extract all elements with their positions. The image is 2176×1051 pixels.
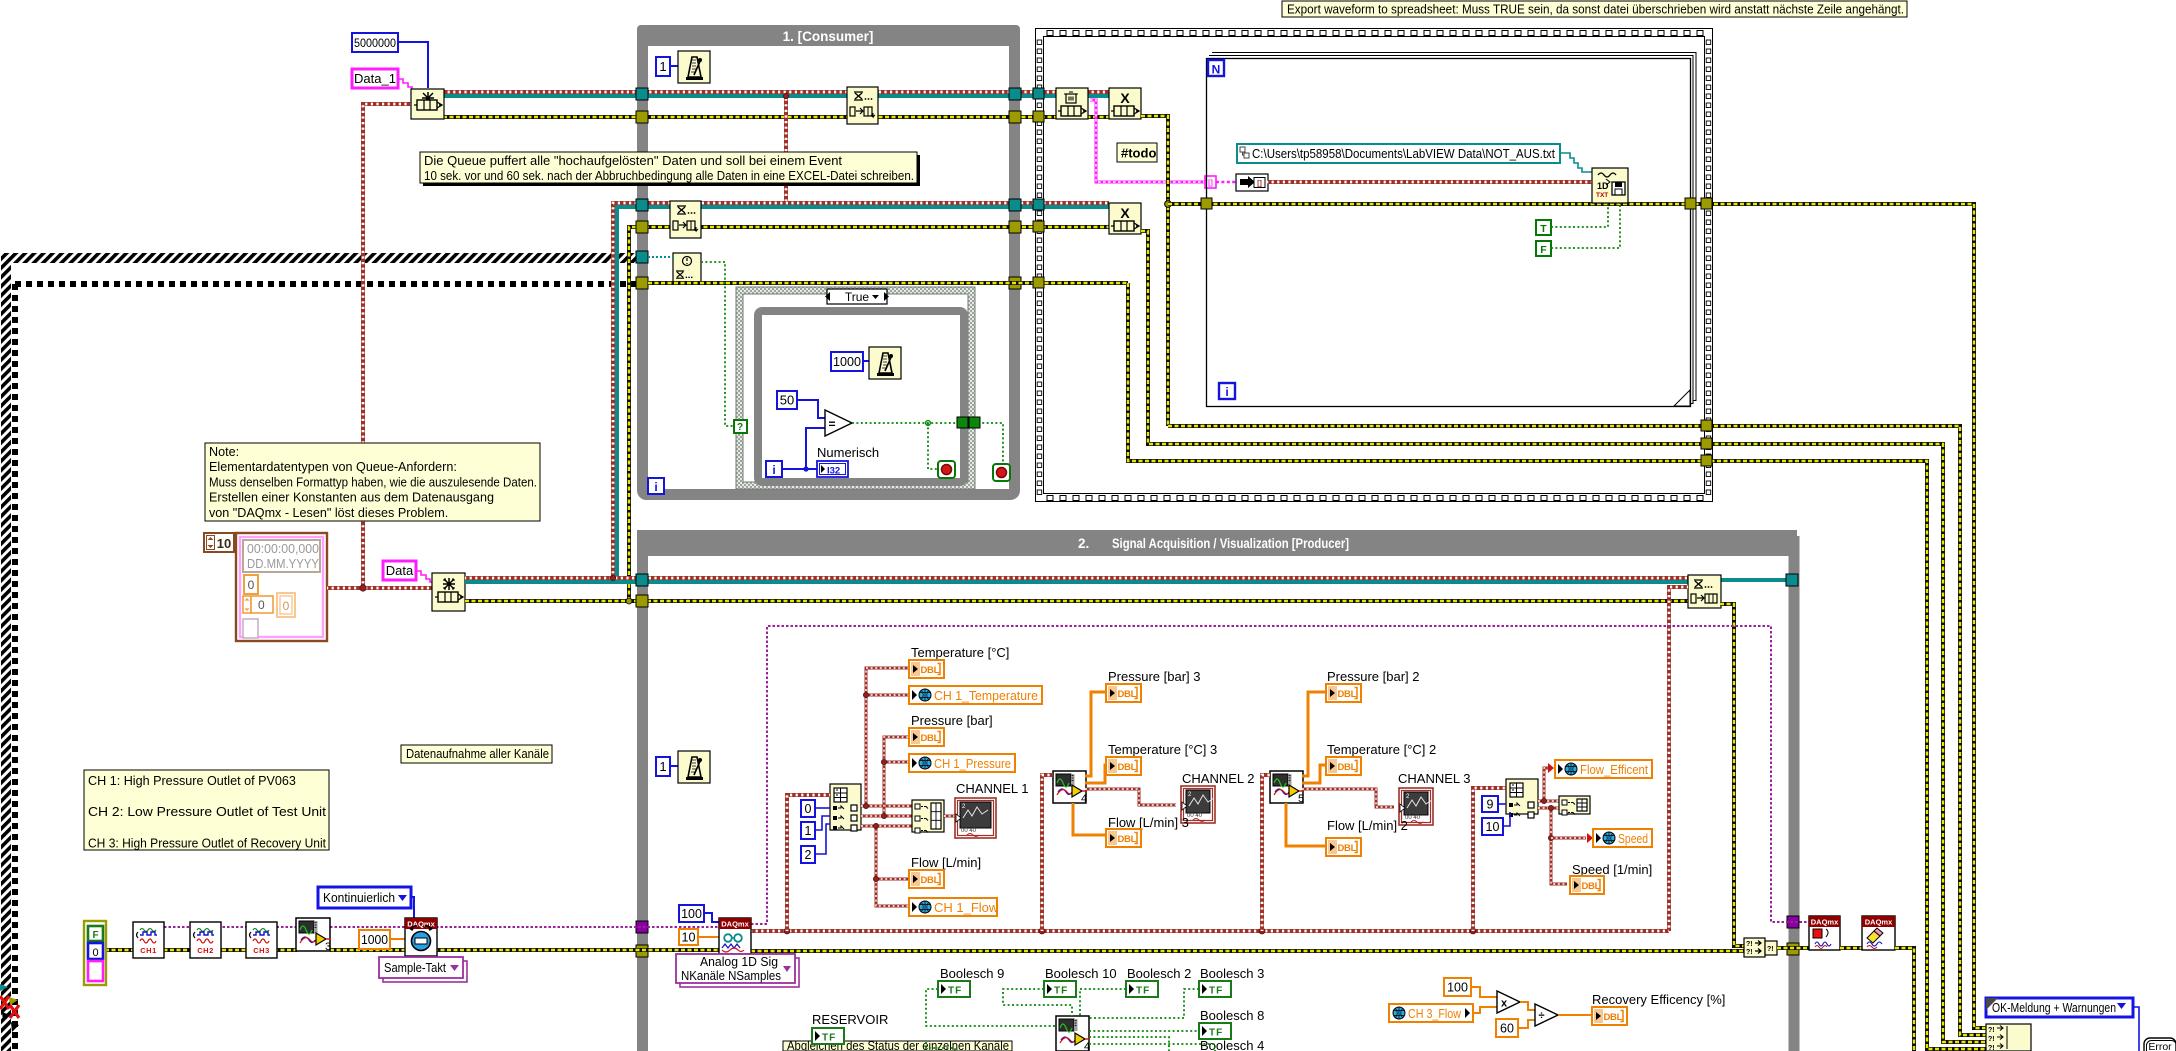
tunnel green case border — [969, 417, 980, 428]
shared variable Flow_Efficent — [1555, 760, 1652, 778]
tunnel olive producer right error — [1787, 943, 1799, 955]
tunnel teal consumer left pair1 — [636, 88, 648, 100]
iteration terminal i inner loop — [766, 461, 782, 477]
svg-text:x: x — [1501, 998, 1508, 1010]
wire orange divide to DBL — [1558, 1014, 1592, 1016]
indicator Boolesch 2 — [1126, 981, 1158, 997]
numeric constant 10 orange producer — [679, 929, 698, 945]
svg-text:?!: ?! — [1767, 946, 1774, 953]
shared variable CH 1_Temperature — [909, 686, 1042, 704]
svg-text:Signal Acquisition / Visualiza: Signal Acquisition / Visualization [Prod… — [1112, 536, 1349, 551]
numeric constant 1000 orange — [359, 930, 390, 949]
svg-text:Speed: Speed — [1618, 831, 1648, 846]
wire purple daqmx task route — [751, 626, 1809, 924]
wire yellow 2 vertical rise and into consumer — [629, 227, 1141, 601]
wire green selector from error node to case — [701, 262, 735, 426]
wait ms metronome node consumer — [678, 51, 710, 83]
shared variable CH 3_Flow read — [1389, 1004, 1473, 1022]
ring constant Analog 1D Sig — [680, 958, 799, 987]
indicator Error bottom right — [2144, 1038, 2176, 1051]
tunnel olive sequence left yellow2 — [1033, 221, 1044, 232]
svg-text:?: ? — [737, 422, 743, 433]
svg-text:CH 1_Flow: CH 1_Flow — [934, 900, 999, 915]
flush queue node X 2 — [1109, 203, 1141, 234]
inner while loop frame — [758, 311, 964, 482]
svg-text:CH1: CH1 — [140, 946, 157, 955]
merge errors small node — [1765, 941, 1777, 955]
svg-text:Data_1: Data_1 — [354, 71, 396, 86]
svg-text:N: N — [1212, 63, 1221, 77]
svg-text:?!: ?! — [1988, 1045, 1995, 1051]
tunnel teal sequence left pair1 — [1033, 88, 1044, 99]
wire yellow merge to stop — [1777, 946, 1809, 950]
numeric constant 50 — [777, 391, 797, 409]
tunnel olive consumer right yellow1 — [1009, 111, 1021, 123]
svg-text:DBL: DBL — [1118, 762, 1137, 773]
svg-text:2.: 2. — [1078, 536, 1089, 551]
indicator DBL Recovery — [1592, 1007, 1627, 1025]
indicator DBL Flow — [909, 870, 944, 888]
svg-text:CHANNEL 1: CHANNEL 1 — [956, 781, 1028, 796]
svg-text:0: 0 — [258, 598, 265, 612]
comment CH 1 CH 2 CH 3 — [84, 770, 329, 850]
split signals node 5 — [1270, 771, 1303, 803]
ring constant Kontinuierlich — [318, 887, 411, 908]
indicator DBL Pressure 2 — [1326, 684, 1361, 702]
wire blue Kontinuierlich to timing — [411, 897, 414, 920]
wire orange temperature2 — [1302, 765, 1326, 783]
wait ms metronome node inner — [869, 347, 901, 379]
indicator DBL Temperature 3 — [1106, 757, 1141, 775]
indicator Boolesch 9 — [938, 981, 970, 997]
daqmx channel constant CH2 — [190, 922, 221, 958]
constant 100 orange — [1444, 978, 1471, 996]
merge channels node 3 — [296, 918, 330, 951]
wire string Data squiggle — [416, 571, 432, 582]
indicator Boolesch 8 — [1199, 1023, 1231, 1039]
wire green equals to stop buttons — [852, 422, 957, 424]
wire yellow from flush2 down — [1141, 231, 1986, 1042]
svg-text:DAQmx: DAQmx — [1865, 918, 1893, 927]
wire speed branch — [1551, 808, 1567, 884]
svg-text:1000: 1000 — [361, 932, 388, 947]
svg-text:?!: ?! — [1746, 941, 1753, 948]
svg-text:Flow [L/min] 3: Flow [L/min] 3 — [1108, 815, 1189, 830]
wire orange CH3_Flow to multiply — [1473, 1007, 1497, 1013]
constant 9 — [1482, 796, 1498, 812]
indicator boolean RESERVOIR — [812, 1028, 844, 1044]
svg-text:0: 0 — [92, 947, 98, 959]
daqmx channel constant CH3 — [246, 922, 277, 958]
indicator DBL Flow 2 — [1326, 838, 1361, 856]
svg-text:10: 10 — [1486, 820, 1500, 834]
svg-text:?!: ?! — [1746, 949, 1753, 956]
indicator DBL Pressure — [909, 728, 944, 746]
svg-text:CH 2: Low Pressure Outlet of T: CH 2: Low Pressure Outlet of Test Unit — [88, 805, 327, 819]
wire waveform pressure branch — [884, 737, 909, 816]
svg-text:Temperature [°C] 2: Temperature [°C] 2 — [1327, 742, 1436, 757]
iteration terminal i for loop — [1219, 383, 1235, 399]
svg-text:Flow_Efficent: Flow_Efficent — [1580, 762, 1648, 777]
tunnel green inner loop border — [957, 417, 968, 428]
wire yellow producer from queue2 — [465, 599, 1688, 603]
svg-text:60: 60 — [1500, 1022, 1514, 1036]
tunnel teal consumer left broken1 — [636, 251, 648, 263]
wire maroon cluster to write node — [1267, 180, 1592, 184]
while loop 2 Producer frame — [637, 536, 1797, 1051]
svg-text:DAQmx: DAQmx — [721, 920, 749, 929]
tunnel teal producer left pair — [636, 574, 648, 586]
broken wire hatched horizontal to consumer loop — [1, 253, 642, 263]
svg-text:CH 3_Flow: CH 3_Flow — [1408, 1006, 1462, 1021]
indicator DBL Temperature — [909, 660, 944, 678]
svg-text:2: 2 — [805, 848, 812, 862]
numeric constant 10 spin — [204, 533, 234, 552]
write waveform to file node — [1592, 168, 1628, 203]
wire teal path to write node — [1560, 153, 1592, 172]
boolean constant T — [1536, 220, 1551, 235]
svg-text:DBL: DBL — [921, 875, 940, 886]
tunnel olive sequence left yellow1 — [1033, 111, 1044, 122]
svg-text:DD.MM.YYYY: DD.MM.YYYY — [247, 557, 320, 571]
comment Abgleichen des Status — [783, 1041, 1012, 1051]
terminal array bracket magenta — [1205, 176, 1216, 188]
svg-text:Muss denselben Formattyp haben: Muss denselben Formattyp haben, wie die … — [209, 475, 537, 489]
wire maroon pair 2 vertical rise and into consumer — [613, 203, 1109, 578]
svg-text:Boolesch 10: Boolesch 10 — [1045, 966, 1117, 981]
wire teal dotted into error node — [648, 256, 673, 258]
wire maroon node4 to chart2 — [1085, 789, 1176, 805]
ring constant Sample-Takt — [383, 961, 467, 982]
svg-text:von "DAQmx - Lesen" löst diese: von "DAQmx - Lesen" löst dieses Problem. — [209, 506, 448, 520]
ring constant OK-Meldung Warnungen — [1986, 998, 2133, 1017]
wire orange multiply to divide — [1520, 1002, 1535, 1010]
svg-text:Sample-Takt: Sample-Takt — [384, 960, 446, 975]
tunnel teal sequence left pair2 — [1033, 199, 1044, 210]
svg-text:100: 100 — [1447, 981, 1468, 995]
svg-text:DBL: DBL — [1604, 1012, 1623, 1023]
comment Note Elementardatentypen — [205, 443, 540, 521]
svg-text:Pressure [bar]: Pressure [bar] — [911, 713, 993, 728]
tunnel olive consumer right yellow2 — [1009, 221, 1021, 233]
svg-text:10: 10 — [217, 536, 231, 551]
wire blue 9 10 index2 — [1498, 803, 1506, 805]
tunnel olive producer left yellow — [636, 595, 648, 607]
flush queue node X 1 — [1109, 88, 1141, 119]
wire blue 100 to read — [704, 913, 719, 922]
case selector terminal ? — [734, 420, 747, 433]
tunnel teal consumer right pair1 — [1009, 88, 1021, 100]
svg-text:Pressure [bar] 2: Pressure [bar] 2 — [1327, 669, 1420, 684]
path constant NOT_AUS — [1237, 144, 1560, 163]
svg-text:TF: TF — [822, 1033, 836, 1044]
svg-text:1000: 1000 — [833, 354, 861, 369]
svg-text:?!: ?! — [1988, 1036, 1995, 1043]
wire teal pair 2 vertical rise and into consumer — [617, 207, 1109, 582]
while loop 1 Consumer frame — [643, 31, 1015, 495]
index array node 2 — [1506, 779, 1538, 814]
svg-text:TF: TF — [1054, 986, 1068, 997]
svg-text:3: 3 — [325, 941, 331, 953]
case selector label True — [827, 289, 887, 304]
broken wire dashed horizontal — [15, 281, 648, 287]
indicator Boolesch 3 — [1199, 981, 1231, 997]
constant 1 — [801, 822, 815, 839]
comment Datenaufnahme aller Kanaele — [401, 745, 552, 763]
shared variable Speed — [1593, 829, 1652, 847]
case structure True border — [740, 291, 972, 486]
broken wire hatched vertical left edge — [1, 258, 11, 1051]
svg-text:i: i — [772, 463, 775, 477]
svg-text:Flow [L/min]: Flow [L/min] — [911, 855, 981, 870]
svg-text:00 40: 00 40 — [1187, 813, 1203, 819]
svg-text:X: X — [1120, 205, 1130, 221]
svg-text:CH3: CH3 — [253, 946, 270, 955]
svg-text:Boolesch 9: Boolesch 9 — [940, 966, 1004, 981]
shared variable CH 1_Flow — [909, 898, 997, 916]
numeric constant 1 wait consumer — [656, 57, 670, 76]
wait metronome producer with constant 1 — [656, 757, 670, 776]
numeric constant 1000 inner wait — [831, 352, 863, 371]
wire data maroon from obtain queue 1 across consumer loop — [443, 90, 1109, 94]
wire maroon branch down to dequeue 2 — [784, 94, 788, 203]
wire magenta queue name — [1090, 100, 1206, 182]
comment Export waveform — [1282, 1, 1907, 17]
svg-text:5: 5 — [1298, 793, 1304, 805]
multiply node — [1497, 991, 1520, 1013]
svg-text:DBL: DBL — [1338, 762, 1357, 773]
wire maroon to index2 — [1473, 788, 1506, 931]
broken wire dashed vertical — [12, 284, 18, 1051]
numeric constant 100 blue producer — [679, 905, 704, 922]
obtain queue node 1 — [411, 89, 444, 119]
wire purple left chain — [164, 926, 297, 928]
wire blue i to I32 and equals — [782, 468, 817, 470]
for loop N frame — [1207, 59, 1691, 407]
wire maroon timestamp to obtain queue 2 — [327, 586, 432, 590]
wire green boolesch routing — [926, 989, 1056, 1026]
svg-text:[]: [] — [1257, 181, 1262, 188]
svg-text:Temperature [°C]: Temperature [°C] — [911, 645, 1009, 660]
svg-text:Boolesch 2: Boolesch 2 — [1127, 966, 1191, 981]
svg-text:Numerisch: Numerisch — [817, 445, 879, 460]
tunnel olive producer left error — [636, 945, 648, 957]
svg-text:10: 10 — [682, 931, 696, 945]
svg-text:TF: TF — [948, 986, 962, 997]
svg-text:DBL: DBL — [1338, 843, 1357, 854]
wire yellow broken2 across consumer — [648, 281, 1128, 285]
unbundle node 2 — [1559, 796, 1590, 814]
daqmx clear task node — [1862, 916, 1895, 950]
svg-text:5000000: 5000000 — [354, 36, 396, 50]
constant 10 blue — [1482, 818, 1503, 835]
wire orange pressure2 — [1302, 692, 1326, 776]
tunnel olive sequence right yellow 204 — [1701, 198, 1712, 209]
constant 2 — [801, 846, 815, 863]
merge errors node producer — [1744, 938, 1765, 957]
tunnel teal producer right pair — [1786, 574, 1798, 586]
flat sequence structure frame — [1036, 29, 1713, 502]
wire maroon to node 4 — [1042, 775, 1053, 931]
comment todo — [1117, 143, 1157, 162]
daqmx read node — [719, 918, 751, 954]
constant 60 orange — [1496, 1019, 1518, 1037]
unbundle node 1 — [912, 800, 944, 832]
wire yellow producer error main — [751, 949, 1744, 953]
svg-text:DBL: DBL — [1118, 834, 1137, 845]
svg-text:RESERVOIR: RESERVOIR — [812, 1012, 888, 1027]
svg-text:CHANNEL 3: CHANNEL 3 — [1398, 771, 1470, 786]
svg-text:X: X — [1120, 90, 1130, 106]
index array node 1 — [830, 784, 861, 830]
svg-text:1: 1 — [659, 59, 666, 74]
wire maroon producer data main — [751, 929, 1669, 933]
svg-text:Export waveform to spreadsheet: Export waveform to spreadsheet: Muss TRU… — [1287, 2, 1904, 17]
svg-text:Data: Data — [386, 563, 414, 578]
tunnel olive consumer left yellow1 — [636, 111, 648, 123]
svg-text:CH 1_Pressure: CH 1_Pressure — [934, 756, 1011, 771]
svg-text:Flow [L/min] 2: Flow [L/min] 2 — [1327, 818, 1408, 833]
svg-text:True: True — [845, 290, 870, 304]
svg-text:TF: TF — [1209, 986, 1223, 997]
wire blue 0 1 2 to index array — [815, 807, 830, 809]
svg-text:TF: TF — [1209, 1028, 1223, 1039]
wire string Data_1 squiggle — [398, 79, 414, 91]
iteration terminal i consumer — [648, 478, 664, 494]
svg-text:Pressure [bar] 3: Pressure [bar] 3 — [1108, 669, 1201, 684]
shared variable CH 1_Pressure — [909, 754, 1015, 772]
tunnel olive consumer right yellow3 — [1009, 277, 1021, 289]
svg-text:DBL: DBL — [1338, 689, 1357, 700]
wire orange 60 to divide — [1518, 1020, 1535, 1028]
string to array node — [1236, 174, 1268, 191]
wire yellow enqueue error down — [1720, 604, 1744, 946]
svg-text:?!: ?! — [1988, 1027, 1995, 1034]
string constant Data — [383, 561, 416, 580]
svg-text:Datenaufnahme aller Kanäle: Datenaufnahme aller Kanäle — [406, 747, 549, 761]
svg-text:4: 4 — [1081, 793, 1087, 805]
wire orange temperature3 — [1085, 765, 1110, 783]
wire blue 50 to equals — [797, 400, 825, 418]
tunnel purple producer left — [636, 921, 648, 933]
chart terminal CHANNEL 2 — [1181, 786, 1215, 823]
wire rows index2 to unbundle2 — [1538, 800, 1559, 803]
svg-text:OK-Meldung + Warnungen: OK-Meldung + Warnungen — [1992, 1001, 2116, 1015]
wire error cluster maroon vertical from timestamp to obtain queue 1 — [363, 104, 411, 588]
svg-text:i: i — [1225, 385, 1228, 399]
svg-text:TF: TF — [1136, 986, 1150, 997]
tunnel olive sequence right yellow 461 — [1701, 455, 1712, 466]
split signals node 4 booleans — [1056, 1016, 1089, 1051]
dequeue flush node consumer 2 — [670, 201, 701, 238]
svg-text:Analog 1D Sig: Analog 1D Sig — [700, 955, 778, 969]
svg-text:Speed [1/min]: Speed [1/min] — [1572, 862, 1652, 877]
wire yellow stop to clear — [1840, 946, 1862, 950]
svg-text:CH2: CH2 — [197, 946, 214, 955]
svg-text:Boolesch 3: Boolesch 3 — [1200, 966, 1264, 981]
svg-text:1. [Consumer]: 1. [Consumer] — [783, 29, 874, 44]
equal comparison node — [825, 410, 852, 436]
loop count terminal N — [1208, 60, 1224, 76]
constant 0 — [801, 800, 815, 817]
dequeue element node consumer — [847, 87, 878, 124]
indicator Boolesch 10 — [1044, 981, 1076, 997]
svg-text:Note:: Note: — [209, 445, 239, 459]
svg-text:[]: [] — [1208, 180, 1213, 187]
svg-text:Kontinuierlich: Kontinuierlich — [323, 890, 395, 905]
tunnel teal consumer left pair2 — [636, 199, 648, 211]
wire maroon read to index array — [787, 795, 830, 931]
string constant Data_1 — [352, 69, 398, 88]
svg-text:F: F — [1540, 244, 1547, 256]
wire green F to write node — [1551, 204, 1620, 248]
indicator DBL Temperature 2 — [1326, 757, 1361, 775]
wire yellow clear down right — [1895, 948, 1914, 1051]
svg-text:CHANNEL 2: CHANNEL 2 — [1182, 771, 1254, 786]
svg-text:Erstellen einer Konstanten aus: Erstellen einer Konstanten aus dem Daten… — [209, 491, 494, 505]
svg-text:DAQmx: DAQmx — [1811, 918, 1839, 927]
svg-text:DBL: DBL — [1118, 689, 1137, 700]
svg-text:NKanäle NSamples: NKanäle NSamples — [681, 969, 781, 983]
svg-text:1D: 1D — [1597, 181, 1609, 191]
wire green T to write node — [1551, 204, 1608, 227]
wire error yellow from obtain queue 1 across consumer loop — [443, 115, 1109, 119]
tunnel teal consumer right pair2 — [1009, 199, 1021, 211]
svg-text:10 sek. vor und 60 sek. nach d: 10 sek. vor und 60 sek. nach der Abbruch… — [424, 168, 914, 183]
stop button inner loop — [938, 461, 955, 478]
tunnel olive consumer left yellow2 — [636, 221, 648, 233]
svg-text:00:00:00,000: 00:00:00,000 — [247, 542, 319, 556]
chart terminal CHANNEL 3 — [1399, 788, 1433, 825]
timestamp cluster constant — [236, 533, 327, 641]
wire orange pressure3 — [1085, 692, 1106, 776]
wire waveform temperature branch — [866, 668, 909, 806]
svg-text:4: 4 — [1084, 1041, 1090, 1051]
wire teal producer pair — [465, 580, 1688, 584]
indicator DBL Flow 3 — [1106, 829, 1141, 847]
obtain queue node 2 — [432, 573, 465, 611]
tunnel olive sequence right yellow 444 — [1701, 438, 1712, 449]
wire maroon producer pair — [465, 576, 1688, 580]
svg-text:100: 100 — [681, 907, 702, 921]
svg-text:T: T — [1540, 223, 1547, 235]
tunnel olive for loop left yellow — [1201, 198, 1212, 209]
daqmx channel constant CH1 — [133, 922, 164, 958]
numeric constant 5000000 — [352, 33, 398, 52]
wire yellow error through for loop — [1141, 116, 1168, 426]
svg-text:50: 50 — [780, 393, 794, 408]
svg-text:F: F — [92, 930, 98, 941]
svg-text:00 40: 00 40 — [961, 828, 977, 834]
wire waveform flow branch — [876, 826, 909, 906]
stop button consumer — [993, 464, 1010, 481]
svg-text:9: 9 — [1487, 798, 1494, 812]
divide node — [1535, 1004, 1558, 1026]
tunnel olive sequence left yellow3 — [1033, 277, 1044, 288]
wire waveform rows index to unbundle — [861, 805, 912, 808]
svg-text:DBL: DBL — [921, 665, 940, 676]
wire orange flow3 — [1073, 803, 1106, 835]
svg-text:Die Queue puffert alle "hochau: Die Queue puffert alle "hochaufgelösten"… — [424, 153, 842, 168]
svg-text:Temperature [°C] 3: Temperature [°C] 3 — [1108, 742, 1217, 757]
svg-text:Recovery Efficency [%]: Recovery Efficency [%] — [1592, 992, 1725, 1007]
wire maroon to node 5 — [1262, 775, 1270, 931]
wire blue OK-Meldung down — [2133, 1007, 2139, 1051]
wire maroon enqueue data vertical — [1669, 587, 1688, 931]
tunnel olive consumer left broken2 — [636, 277, 648, 289]
svg-text:0: 0 — [248, 578, 255, 592]
wire waveform to chart1 — [944, 815, 957, 818]
